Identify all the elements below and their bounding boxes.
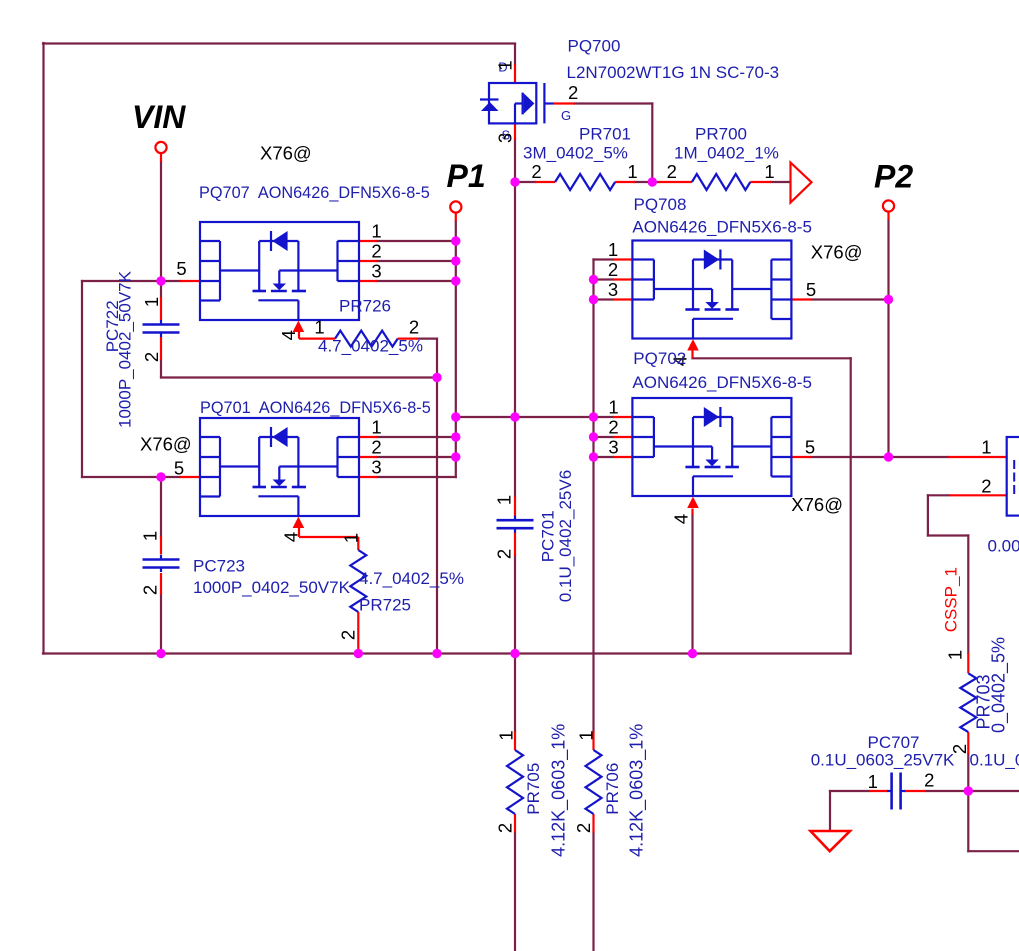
svg-text:4.7_0402_5%: 4.7_0402_5%: [359, 569, 464, 588]
transistor PQ700: [480, 83, 554, 123]
capacitor PC722: [160, 320, 162, 324]
svg-text:5: 5: [174, 458, 184, 479]
svg-text:2: 2: [531, 161, 541, 182]
wire PQ701 pin1 row: [377, 436, 456, 438]
stub PQ702 pin3: [613, 456, 632, 458]
svg-text:2: 2: [139, 585, 160, 595]
svg-text:X76@: X76@: [140, 434, 192, 455]
junction (515,653.5): [510, 649, 519, 658]
wire PQ701 pin5 stub: [161, 476, 180, 478]
svg-text:2: 2: [924, 770, 934, 791]
wire PQ702 pin4 drop: [691, 515, 693, 654]
svg-text:5: 5: [806, 279, 816, 300]
resistor PR703: [960, 673, 976, 732]
ground: [811, 831, 851, 851]
junction (161,477): [156, 472, 165, 481]
svg-text:1: 1: [981, 437, 991, 458]
stub PR706 pin1: [592, 731, 594, 750]
svg-text:VIN: VIN: [132, 99, 186, 135]
wire PR705 bottom: [514, 833, 516, 951]
wire PQ702 pin5 run: [811, 456, 889, 458]
junction (888.5,457): [884, 452, 893, 461]
wire PQ700 source drop: [514, 140, 516, 182]
wire PC722 top lead: [160, 281, 162, 297]
wire P2 drop: [887, 220, 889, 457]
stub VIN terminal: [160, 153, 162, 162]
svg-text:PQ700: PQ700: [568, 37, 621, 56]
wire PC722 bottom lead: [160, 360, 162, 378]
junction (455.8,241): [451, 236, 460, 245]
stub PC707 pin1: [869, 790, 888, 792]
svg-text:2: 2: [608, 259, 618, 280]
junction (593.5,279.5): [589, 275, 598, 284]
resistor PR725: [350, 550, 366, 612]
svg-text:1: 1: [371, 221, 381, 242]
svg-text:PQ707 AON6426_DFN5X6-8-5: PQ707 AON6426_DFN5X6-8-5: [199, 184, 430, 202]
stub PR700 pin2: [659, 181, 692, 183]
stub PR703 pin2: [967, 732, 969, 754]
wire PQ708 pin5 run: [811, 298, 889, 300]
wire PR703 to junction: [967, 754, 969, 791]
stub PC707 pin2: [904, 790, 926, 792]
svg-text:0.1U_0402_25V6: 0.1U_0402_25V6: [556, 470, 575, 602]
svg-text:AON6426_DFN5X6-8-5: AON6426_DFN5X6-8-5: [632, 218, 812, 237]
stub PR726 pin1: [298, 331, 300, 339]
svg-text:PQ702: PQ702: [633, 349, 686, 368]
junction (358.3,653.5): [354, 649, 363, 658]
wire left border: [42, 43, 44, 654]
stub PQ701 pin3: [359, 476, 378, 478]
svg-text:4.12K_0603_1%: 4.12K_0603_1%: [549, 724, 570, 857]
stub PC722 pin2: [160, 337, 162, 361]
svg-text:0.1U_0603_25V7K: 0.1U_0603_25V7K: [811, 751, 955, 770]
junction (652.3,182): [648, 177, 657, 186]
wire right riser from PQ708 pin4 net: [850, 358, 852, 653]
stub PR706 pin2: [592, 814, 594, 833]
wire connector pin2 drop: [927, 495, 929, 535]
svg-text:4: 4: [278, 330, 299, 340]
wire bottom bus: [43, 652, 851, 654]
connector P3 dashed line: [1013, 460, 1015, 495]
svg-text:1000P_0402_50V7K: 1000P_0402_50V7K: [116, 270, 135, 428]
stub PR726 pin1b: [299, 338, 335, 340]
junction (455.8,457): [451, 452, 460, 461]
stub PQ708 pin2: [613, 278, 632, 280]
transistor PQ701: [200, 418, 359, 528]
svg-text:1: 1: [764, 161, 774, 182]
svg-text:3: 3: [371, 457, 381, 478]
off-page connector arrow: [791, 163, 812, 203]
stub PQ702 pin1: [613, 416, 632, 418]
wire PR701 to junction: [635, 181, 652, 183]
junction (437,377.5): [432, 373, 441, 382]
stub PQ702 pin5: [791, 456, 811, 458]
junction (593.5,417): [589, 412, 598, 421]
wire PQ701 pin2 row: [377, 456, 456, 458]
svg-text:L2N7002WT1G 1N SC-70-3: L2N7002WT1G 1N SC-70-3: [567, 63, 780, 82]
transistor PQ707: [200, 222, 359, 332]
svg-text:3: 3: [494, 133, 515, 143]
wire PC707 right lead: [926, 790, 969, 792]
stub PQ707 pin2: [359, 260, 378, 262]
stub P2 terminal: [887, 212, 889, 220]
svg-text:2: 2: [371, 437, 381, 458]
stub PR701 pin1: [615, 181, 635, 183]
svg-text:2: 2: [981, 476, 991, 497]
wire junction right: [968, 790, 1019, 792]
svg-text:PC723: PC723: [193, 557, 245, 576]
svg-text:PR706: PR706: [603, 763, 622, 815]
junction (888.5,299.5): [884, 295, 893, 304]
svg-text:3: 3: [608, 437, 618, 458]
svg-text:0.005: 0.005: [988, 537, 1019, 556]
stub PQ708 pin1: [613, 258, 632, 260]
resistor PR706: [586, 750, 602, 814]
svg-text:P2: P2: [874, 159, 913, 195]
stub PR700 pin1: [750, 181, 771, 183]
svg-text:1: 1: [608, 239, 618, 260]
junction (455.8,417): [451, 412, 460, 421]
svg-text:4.7_0402_5%: 4.7_0402_5%: [318, 337, 423, 356]
stub PQ700 gate: [554, 102, 575, 104]
wire PQ708 pin1 link: [594, 258, 614, 260]
wire P1 row to PR701: [515, 181, 535, 183]
resistor PR701: [555, 174, 615, 190]
svg-text:PR700: PR700: [695, 125, 747, 144]
wire PQ707 pin2 row: [377, 260, 456, 262]
capacitor PC707: [887, 790, 891, 792]
wire P1 vertical: [455, 221, 457, 477]
wire PQ708 col vertical: [592, 260, 594, 732]
resistor PR726: [335, 331, 398, 347]
wire PQ707 pin1 row: [377, 240, 456, 242]
svg-text:1000P_0402_50V7K: 1000P_0402_50V7K: [193, 578, 351, 597]
stub PQ702 pin2: [613, 436, 632, 438]
wire P1 cross row: [456, 416, 613, 418]
svg-text:1: 1: [371, 417, 381, 438]
junction (161,281): [156, 276, 165, 285]
svg-text:1: 1: [340, 533, 361, 543]
wire PC723 bottom lead: [160, 595, 162, 654]
wire ground drop: [829, 791, 831, 830]
wire VIN drop: [160, 162, 162, 281]
wire P1 drop: [514, 182, 516, 497]
wire PQ702 pin2 link: [594, 436, 614, 438]
stub PQ707 pin5: [180, 280, 200, 282]
svg-text:2: 2: [493, 549, 514, 559]
svg-text:AON6426_DFN5X6-8-5: AON6426_DFN5X6-8-5: [632, 373, 812, 392]
svg-text:CSSP_1: CSSP_1: [942, 567, 961, 632]
svg-text:1: 1: [493, 495, 514, 505]
stub PQ700 source: [514, 123, 516, 140]
wire PQ708 pin4 horizontal: [693, 357, 851, 359]
svg-text:X76@: X76@: [260, 143, 312, 164]
svg-text:0_0402_5%: 0_0402_5%: [989, 637, 1010, 733]
svg-text:4.12K_0603_1%: 4.12K_0603_1%: [626, 724, 647, 857]
wire bottom right out: [968, 850, 1019, 852]
wire PC701 to bus: [514, 556, 516, 654]
svg-text:2: 2: [409, 317, 419, 338]
svg-text:3: 3: [608, 279, 618, 300]
stub PC723 pin2: [160, 573, 162, 595]
junction (455.8,437): [451, 432, 460, 441]
svg-text:PQ708: PQ708: [634, 195, 687, 214]
svg-text:1: 1: [575, 730, 596, 740]
junction (455.8,261): [451, 256, 460, 265]
svg-text:5: 5: [805, 437, 815, 458]
svg-text:PC701: PC701: [538, 510, 557, 562]
svg-text:PR701: PR701: [579, 125, 631, 144]
connector P3 body: [1007, 437, 1019, 516]
junction (437,653.5): [432, 649, 441, 658]
svg-text:2: 2: [371, 241, 381, 262]
junction (968.3,791): [964, 786, 973, 795]
capacitor PC701: [514, 516, 516, 520]
stub connector pin1: [948, 456, 1007, 458]
wire PQ708 pin3 link: [594, 298, 614, 300]
stub PR725 pin1: [357, 537, 359, 550]
wire connector pin2 left: [928, 494, 950, 496]
svg-text:X76@: X76@: [811, 242, 863, 263]
stub PQ708 pin3: [613, 298, 632, 300]
svg-text:1: 1: [627, 161, 637, 182]
stub PR725 pin2: [357, 612, 359, 625]
capacitor PC723: [160, 555, 162, 559]
svg-text:1: 1: [139, 531, 160, 541]
wire PQ702 pin3 link: [594, 456, 614, 458]
svg-text:2: 2: [141, 352, 162, 362]
wire PQ708 pin2 link: [594, 278, 614, 280]
stub PQ707 pin1: [359, 240, 378, 242]
stub PR726 pin2: [398, 338, 418, 340]
node P1 terminal: [450, 201, 461, 212]
svg-text:2: 2: [568, 82, 578, 103]
wire PR726 pin2 link: [418, 338, 437, 340]
stub PQ701 pin5: [180, 476, 200, 478]
svg-text:PR725: PR725: [359, 596, 411, 615]
svg-text:4: 4: [280, 532, 301, 542]
stub PC701 pin1: [514, 497, 516, 518]
svg-text:PC707: PC707: [868, 733, 920, 752]
svg-text:1: 1: [495, 730, 516, 740]
wire PC723 top lead: [160, 477, 162, 536]
stub PQ701 pin1: [359, 436, 378, 438]
svg-text:1: 1: [494, 60, 515, 70]
wire PR725 to bus: [357, 625, 359, 654]
svg-text:P1: P1: [447, 158, 486, 194]
svg-text:2: 2: [608, 417, 618, 438]
stub PQ707 pin3: [359, 280, 378, 282]
svg-text:4: 4: [670, 514, 691, 524]
wire gate drop: [651, 104, 653, 183]
transistor PQ702: [632, 398, 791, 508]
wire PQ707 pin3 row: [377, 280, 456, 282]
junction (692.5,653.5): [688, 649, 697, 658]
svg-text:1: 1: [944, 650, 965, 660]
wire bus to PR705: [514, 654, 516, 732]
svg-text:2: 2: [573, 823, 594, 833]
stub PC722 pin1: [160, 297, 162, 320]
node P2 terminal: [883, 200, 894, 211]
svg-text:3M_0402_5%: 3M_0402_5%: [523, 144, 628, 163]
wire PQ707 pin5 stub: [161, 280, 180, 282]
wire PQ700 drain drop: [514, 44, 516, 64]
junction (593.5,457): [589, 452, 598, 461]
wire PQ700 gate run: [575, 102, 653, 104]
wire to PQ701 pin5: [82, 476, 161, 478]
wire left branch vertical: [81, 281, 83, 477]
transistor PQ708: [632, 241, 791, 351]
resistor PR700: [692, 174, 750, 190]
svg-text:0.1U_0603_25V7K: 0.1U_0603_25V7K: [970, 751, 1019, 770]
stub PQ701 pin4: [298, 527, 300, 537]
svg-text:1: 1: [141, 297, 162, 307]
stub PQ701 pin4b: [299, 536, 317, 538]
junction (161,653.5): [156, 649, 165, 658]
wire PC707 left lead: [830, 790, 869, 792]
svg-text:2: 2: [494, 823, 515, 833]
junction (515,182): [510, 177, 519, 186]
resistor PR705: [507, 750, 523, 814]
stub PC723 pin1: [160, 536, 162, 555]
wire CSSP_1 vertical: [967, 536, 969, 653]
stub PR701 pin2: [535, 181, 555, 183]
svg-text:2: 2: [667, 161, 677, 182]
stub PQ701 pin2: [359, 456, 378, 458]
svg-text:1: 1: [868, 771, 878, 792]
svg-text:PR705: PR705: [524, 763, 543, 815]
svg-text:PQ701 AON6426_DFN5X6-8-5: PQ701 AON6426_DFN5X6-8-5: [200, 399, 431, 417]
svg-text:PR726: PR726: [339, 297, 391, 316]
wire junction to PR700: [652, 181, 658, 183]
stub PR705 pin2: [514, 814, 516, 833]
svg-text:1: 1: [314, 317, 324, 338]
svg-text:2: 2: [337, 630, 358, 640]
stub PC701 pin2: [514, 532, 516, 557]
wire PR706 bottom: [592, 833, 594, 951]
svg-text:1: 1: [608, 397, 618, 418]
junction (455.8,281): [451, 276, 460, 285]
wire top border: [43, 42, 515, 44]
stub PQ708 pin5: [791, 298, 811, 300]
svg-text:1M_0402_1%: 1M_0402_1%: [674, 144, 779, 163]
svg-text:3: 3: [371, 261, 381, 282]
stub PQ708 pin4: [691, 350, 693, 358]
stub PR703 pin1: [967, 653, 969, 674]
stub P1 terminal: [455, 213, 457, 221]
stub PQ702 pin4: [691, 509, 693, 515]
node VIN terminal: [155, 142, 166, 153]
svg-text:G: G: [561, 108, 571, 123]
stub connector pin2: [949, 494, 1006, 496]
stub PQ700 drain: [514, 64, 516, 83]
stub PR705 pin1: [514, 731, 516, 750]
junction (515,417): [510, 412, 519, 421]
wire VIN row left: [82, 280, 161, 282]
wire jog to CSSP: [928, 534, 968, 536]
wire P2 to connector: [889, 456, 949, 458]
wire PR726 riser: [436, 339, 438, 654]
wire junction down: [967, 791, 969, 851]
wire PQ701 pin4 to PR725: [317, 536, 358, 538]
svg-text:X76@: X76@: [791, 494, 843, 515]
wire PQ701 pin3 row: [377, 476, 456, 478]
wire PC722 to riser: [161, 376, 437, 378]
junction (593.5,437): [589, 432, 598, 441]
junction (593.5,299.5): [589, 295, 598, 304]
svg-text:5: 5: [176, 258, 186, 279]
wire PR700 to arrow: [771, 181, 790, 183]
